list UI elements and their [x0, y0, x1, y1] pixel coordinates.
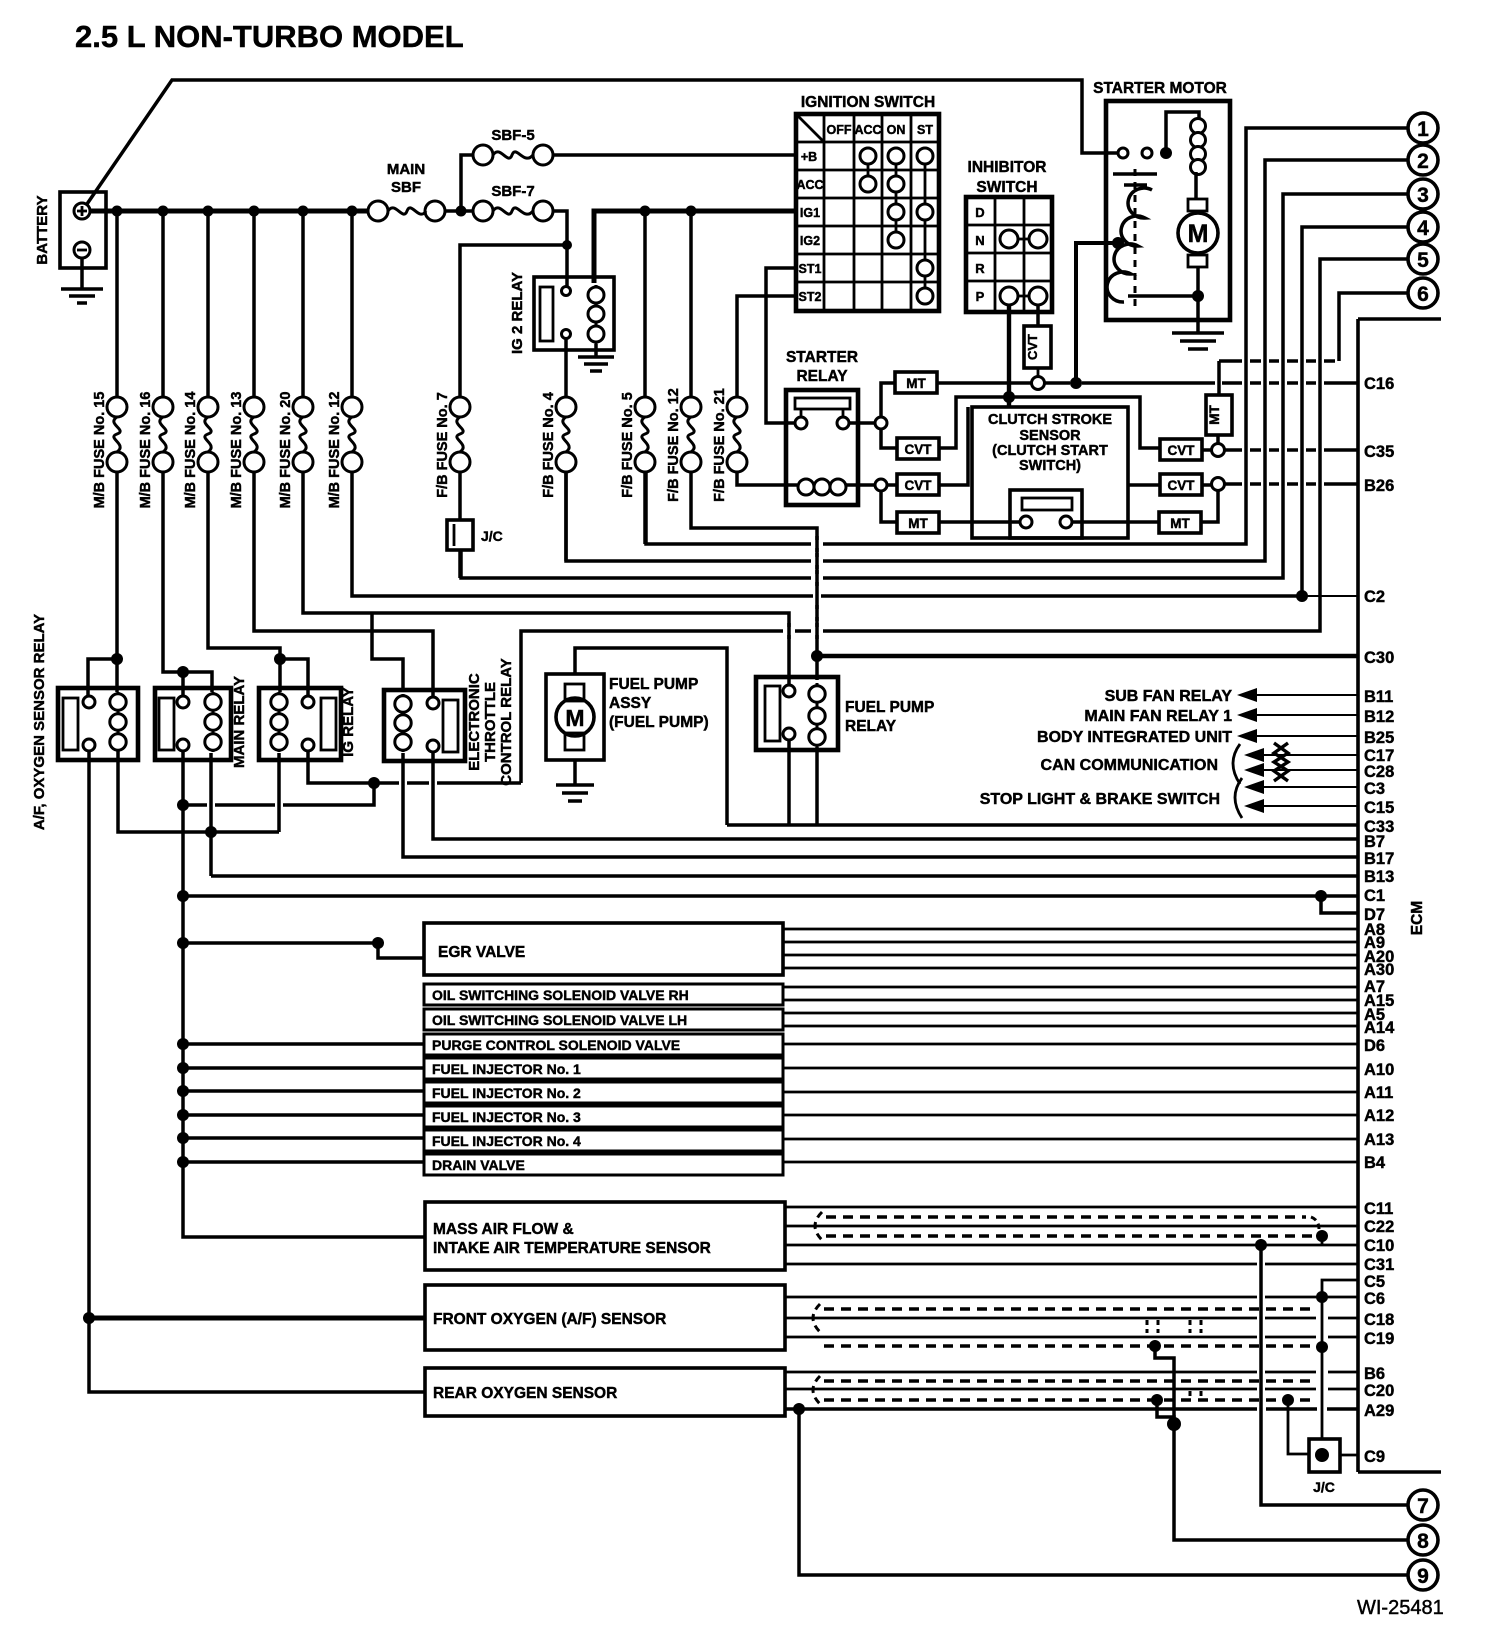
wire ST2 row to F/B fuse 21 — [737, 296, 796, 397]
svg-text:P: P — [976, 289, 985, 304]
svg-text:MAIN FAN RELAY 1: MAIN FAN RELAY 1 — [1084, 708, 1232, 725]
node 3 circled connector — [461, 179, 1438, 578]
wire coil return bus — [118, 751, 279, 876]
motor STARTER MOTOR — [1093, 80, 1230, 349]
wire CVT path over clutch sensor — [939, 397, 1160, 448]
wire C5 elbow — [1322, 1280, 1358, 1297]
wire main bus — [90, 209, 368, 214]
svg-text:INHIBITOR: INHIBITOR — [968, 159, 1047, 176]
svg-text:RELAY: RELAY — [845, 718, 897, 735]
svg-text:B11: B11 — [1364, 688, 1393, 706]
box MT (clutch switch left) — [897, 512, 939, 533]
wire C20 row — [785, 1388, 1358, 1391]
ground IG2 relay coil — [594, 344, 598, 356]
shield MAF dashed — [815, 1212, 822, 1240]
wire branch to F/B fuse No.7 — [460, 245, 567, 397]
wire M/B fuse20 to fuel pump relay contact — [303, 472, 789, 688]
svg-text:A29: A29 — [1364, 1402, 1394, 1420]
svg-text:2: 2 — [1417, 150, 1429, 173]
svg-text:STARTER: STARTER — [786, 349, 858, 366]
ECM pin labels — [1364, 375, 1395, 1466]
starter solenoid pull-in coil spring — [1107, 188, 1152, 302]
svg-text:CAN COMMUNICATION: CAN COMMUNICATION — [1041, 757, 1218, 774]
ground starter motor — [1172, 333, 1224, 349]
svg-text:B4: B4 — [1364, 1154, 1386, 1172]
svg-text:WI-25481: WI-25481 — [1357, 1597, 1444, 1619]
svg-text:C22: C22 — [1364, 1218, 1394, 1236]
fuse M/B FUSE No. 13 — [229, 392, 264, 509]
svg-text:ST1: ST1 — [799, 262, 822, 276]
wire EGR valve feed — [183, 943, 424, 958]
box CVT (starter relay coil, CVT path) — [897, 474, 939, 495]
svg-text:SBF-5: SBF-5 — [491, 127, 534, 144]
svg-text:M/B FUSE No. 14: M/B FUSE No. 14 — [183, 392, 199, 509]
svg-text:C11: C11 — [1364, 1200, 1393, 1218]
wire risers bus to M/B fuses — [117, 211, 352, 397]
wire M/B fuse14 to IG relay — [208, 472, 280, 692]
svg-text:M/B FUSE No. 16: M/B FUSE No. 16 — [138, 392, 154, 509]
svg-text:C30: C30 — [1364, 649, 1394, 667]
wire B13 row — [211, 874, 1358, 878]
svg-text:CLUTCH STROKE: CLUTCH STROKE — [988, 412, 1112, 428]
relay FUEL PUMP RELAY — [756, 677, 934, 750]
node junction after MAIN SBF — [456, 206, 467, 217]
svg-text:C18: C18 — [1364, 1311, 1394, 1329]
fuse SBF-7 — [473, 201, 493, 221]
wire IG relay contact output to node 5 — [308, 751, 521, 783]
svg-text:F/B FUSE No. 12: F/B FUSE No. 12 — [666, 388, 682, 502]
wire C22 row — [785, 1225, 1358, 1228]
wire EGR outputs A8 A9 A20 A30 — [783, 929, 1358, 968]
svg-text:ON: ON — [887, 123, 906, 137]
wire node 9 feed — [799, 1409, 1408, 1575]
ground below battery — [80, 258, 84, 288]
wire MAIN relay contact bus down — [183, 751, 425, 1237]
svg-text:6: 6 — [1417, 283, 1429, 306]
ECM left edge — [1356, 319, 1360, 1472]
wire A/F relay contact riser to oxygen sensors — [89, 751, 425, 1392]
svg-text:7: 7 — [1417, 1495, 1429, 1518]
wire B7 row from ETC contact — [433, 752, 1358, 839]
wire M/B fuse13 to ETC relay contact — [254, 472, 433, 699]
svg-text:4: 4 — [1417, 217, 1429, 240]
node 2 circled connector — [566, 145, 1438, 561]
svg-text:A11: A11 — [1364, 1084, 1393, 1102]
node 6 circled connector — [1339, 278, 1438, 361]
svg-text:F/B FUSE No. 4: F/B FUSE No. 4 — [541, 392, 557, 498]
svg-text:ASSY: ASSY — [609, 695, 652, 712]
wire C10 row — [785, 1244, 1358, 1247]
svg-text:M/B FUSE No. 12: M/B FUSE No. 12 — [327, 392, 343, 509]
svg-text:FUEL PUMP: FUEL PUMP — [609, 676, 698, 693]
svg-text:FUEL INJECTOR No. 2: FUEL INJECTOR No. 2 — [432, 1085, 581, 1101]
svg-text:MAIN: MAIN — [387, 161, 425, 178]
svg-text:D6: D6 — [1364, 1037, 1385, 1055]
svg-text:SBF-7: SBF-7 — [491, 183, 534, 200]
svg-text:FRONT OXYGEN (A/F) SENSOR: FRONT OXYGEN (A/F) SENSOR — [433, 1311, 666, 1328]
wire M/B fuse15 to A/F relay — [88, 472, 117, 699]
fuse F/B FUSE No. 4 — [541, 392, 576, 498]
valve OIL SWITCHING SOLENOID VALVE RH — [424, 984, 783, 1005]
ground fuel pump — [573, 760, 577, 784]
svg-text:R: R — [975, 261, 985, 276]
svg-text:B6: B6 — [1364, 1365, 1385, 1383]
wire fuse21 to starter relay coil — [737, 472, 797, 485]
svg-text:ELECTRONIC: ELECTRONIC — [466, 673, 483, 771]
svg-text:SWITCH: SWITCH — [976, 179, 1037, 196]
svg-text:C5: C5 — [1364, 1273, 1385, 1291]
wire A29 row — [785, 1407, 1358, 1411]
svg-text:C9: C9 — [1364, 1448, 1385, 1466]
wire C11 row — [785, 1206, 1358, 1209]
svg-text:CVT: CVT — [1025, 334, 1040, 360]
svg-text:OIL SWITCHING SOLENOID VALVE L: OIL SWITCHING SOLENOID VALVE LH — [432, 1012, 687, 1028]
svg-text:CVT: CVT — [1168, 443, 1196, 458]
svg-text:FUEL INJECTOR No. 1: FUEL INJECTOR No. 1 — [432, 1061, 581, 1077]
wire C35 row — [1202, 448, 1211, 452]
junction J/C (fuse 7) — [458, 472, 462, 520]
svg-text:ACC: ACC — [796, 178, 823, 192]
svg-text:BODY INTEGRATED UNIT: BODY INTEGRATED UNIT — [1037, 729, 1232, 746]
svg-text:B17: B17 — [1364, 850, 1394, 868]
sensor REAR OXYGEN box — [425, 1368, 785, 1416]
relay STARTER RELAY — [786, 349, 858, 505]
svg-text:CONTROL RELAY: CONTROL RELAY — [498, 658, 515, 786]
wire rear shield to J/C C9 — [1288, 1400, 1309, 1454]
svg-text:ECM: ECM — [1409, 901, 1426, 935]
valve EGR VALVE — [424, 923, 783, 975]
wire B17 row from ETC coil — [403, 753, 1358, 857]
svg-text:C15: C15 — [1364, 799, 1394, 817]
box CVT (clutch sensor right lower) — [1160, 474, 1202, 495]
wire fuel pump motor feed — [575, 648, 727, 825]
svg-text:FUEL INJECTOR No. 3: FUEL INJECTOR No. 3 — [432, 1109, 581, 1125]
wire SBF-5 to ignition switch +B — [553, 153, 796, 157]
wire MT row to ECM C16 — [937, 381, 1215, 385]
svg-text:(CLUTCH START: (CLUTCH START — [992, 443, 1108, 459]
svg-text:C16: C16 — [1364, 375, 1394, 393]
svg-text:C10: C10 — [1364, 1237, 1394, 1255]
wire J/C to node 3 riser — [458, 550, 462, 578]
svg-text:9: 9 — [1417, 1565, 1429, 1588]
svg-text:FUEL INJECTOR No. 4: FUEL INJECTOR No. 4 — [432, 1133, 581, 1149]
svg-text:F/B FUSE No. 5: F/B FUSE No. 5 — [620, 392, 636, 498]
svg-text:C35: C35 — [1364, 443, 1394, 461]
label SUB FAN RELAY with arrow B11 — [1105, 688, 1358, 705]
svg-text:M/B FUSE No. 15: M/B FUSE No. 15 — [92, 392, 108, 509]
svg-text:RELAY: RELAY — [796, 368, 848, 385]
wire crossing breaks — [783, 536, 823, 639]
svg-text:A13: A13 — [1364, 1131, 1394, 1149]
svg-text:B26: B26 — [1364, 477, 1394, 495]
wire C5 C6 net down to J/C — [1321, 1297, 1324, 1439]
relay A/F OXYGEN SENSOR RELAY — [31, 614, 138, 830]
wire C6 row — [785, 1296, 1358, 1299]
wire front oxygen shield to node 8 riser — [1155, 1346, 1408, 1540]
wire rear shield stair to node8 riser — [1157, 1400, 1174, 1424]
wire fuse4 riser — [564, 472, 568, 561]
wire B26 row — [1212, 478, 1225, 491]
svg-text:ACC: ACC — [854, 123, 881, 137]
svg-text:2.5 L NON-TURBO MODEL: 2.5 L NON-TURBO MODEL — [75, 19, 464, 54]
svg-text:IG1: IG1 — [800, 206, 820, 220]
svg-text:M: M — [1188, 220, 1209, 248]
svg-text:EGR VALVE: EGR VALVE — [438, 944, 525, 961]
svg-text:F/B FUSE No. 21: F/B FUSE No. 21 — [712, 388, 728, 502]
svg-text:D: D — [975, 205, 984, 220]
svg-text:PURGE CONTROL SOLENOID VALVE: PURGE CONTROL SOLENOID VALVE — [432, 1037, 680, 1053]
svg-text:M/B FUSE No. 20: M/B FUSE No. 20 — [278, 392, 294, 509]
svg-text:B7: B7 — [1364, 833, 1385, 851]
wire C18 row — [785, 1317, 1358, 1320]
wire clutch switch to right MT box — [1072, 520, 1159, 524]
node dots on main bus — [112, 206, 123, 217]
battery BAT — [60, 192, 106, 268]
injector FUEL INJECTOR No. 2 — [183, 1089, 424, 1093]
wire node 7 riser from C10 — [1261, 1245, 1408, 1505]
valve DRAIN VALVE — [183, 1160, 424, 1164]
shield rear oxygen dashed — [813, 1376, 820, 1404]
svg-text:MT: MT — [1170, 516, 1190, 531]
relay ELECTRONIC THROTTLE CONTROL RELAY — [384, 658, 515, 786]
node 9 circled connector — [1408, 1560, 1438, 1590]
wire C19 row — [785, 1336, 1358, 1339]
svg-text:THROTTLE: THROTTLE — [482, 682, 499, 762]
svg-text:A12: A12 — [1364, 1107, 1394, 1125]
wire SBF-7 to IG2 relay — [553, 211, 567, 287]
svg-text:ST: ST — [917, 123, 933, 137]
svg-text:C3: C3 — [1364, 780, 1385, 798]
svg-text:B13: B13 — [1364, 868, 1394, 886]
svg-text:SUB FAN RELAY: SUB FAN RELAY — [1105, 688, 1233, 705]
svg-text:STARTER MOTOR: STARTER MOTOR — [1093, 80, 1227, 97]
svg-text:M: M — [565, 705, 584, 731]
svg-text:BATTERY: BATTERY — [34, 195, 51, 264]
svg-text:IGNITION SWITCH: IGNITION SWITCH — [801, 94, 935, 111]
node 1 circled connector — [646, 113, 1438, 544]
injector FUEL INJECTOR No. 1 — [183, 1066, 424, 1070]
svg-text:IG 2 RELAY: IG 2 RELAY — [509, 272, 526, 354]
node 7 circled connector — [1408, 1490, 1438, 1520]
relay MAIN RELAY — [155, 676, 248, 768]
svg-text:B12: B12 — [1364, 708, 1394, 726]
wire fuel pump relay outputs to C33 — [789, 740, 817, 825]
relay IG2 — [534, 277, 614, 350]
svg-text:CVT: CVT — [905, 478, 933, 493]
fuse SBF-5 — [473, 145, 493, 165]
wire C2 row from M/B fuse12 — [352, 472, 1298, 596]
wire ST1 row to starter relay — [766, 268, 796, 423]
fuse M/B FUSE No. 20 — [278, 392, 313, 509]
svg-text:1: 1 — [1417, 118, 1429, 141]
svg-text:A14: A14 — [1364, 1019, 1395, 1037]
wire inhibitor P right to CVT resistor — [1036, 305, 1040, 326]
wire C9 row — [1340, 1454, 1358, 1457]
svg-text:IG2: IG2 — [800, 234, 820, 248]
svg-text:IG RELAY: IG RELAY — [340, 687, 357, 756]
wire IG1 row to coil of IG2 relay — [594, 211, 796, 283]
svg-text:F/B FUSE No. 7: F/B FUSE No. 7 — [435, 392, 451, 498]
svg-text:A10: A10 — [1364, 1061, 1394, 1079]
svg-text:MASS AIR FLOW &: MASS AIR FLOW & — [433, 1221, 574, 1238]
svg-text:REAR OXYGEN SENSOR: REAR OXYGEN SENSOR — [433, 1385, 617, 1402]
sensor FRONT OXYGEN box — [425, 1285, 785, 1350]
wire battery diagonal to top bus — [87, 80, 1118, 204]
svg-text:(FUEL PUMP): (FUEL PUMP) — [609, 714, 709, 731]
svg-text:MT: MT — [1207, 405, 1222, 425]
fuse MAIN SBF — [368, 201, 388, 221]
svg-text:C1: C1 — [1364, 887, 1385, 905]
svg-text:C28: C28 — [1364, 763, 1394, 781]
svg-text:ST2: ST2 — [799, 290, 822, 304]
fuse M/B FUSE No. 16 — [138, 392, 173, 509]
wire dashed MT row to node 6 — [1219, 359, 1335, 363]
svg-text:MT: MT — [908, 516, 928, 531]
svg-text:MAIN RELAY: MAIN RELAY — [231, 676, 248, 768]
svg-text:STOP LIGHT & BRAKE SWITCH: STOP LIGHT & BRAKE SWITCH — [980, 791, 1220, 808]
svg-text:OIL SWITCHING SOLENOID VALVE R: OIL SWITCHING SOLENOID VALVE RH — [432, 987, 689, 1003]
svg-text:C2: C2 — [1364, 588, 1385, 606]
svg-text:N: N — [975, 233, 984, 248]
wire C1 row and D7 branch — [183, 894, 1358, 898]
valve PURGE CONTROL SOLENOID VALVE — [183, 1042, 424, 1046]
svg-text:SENSOR: SENSOR — [1019, 428, 1081, 444]
wire C31 row — [785, 1263, 1358, 1266]
svg-text:FUEL PUMP: FUEL PUMP — [845, 699, 934, 716]
box CVT (clutch sensor right upper) — [1160, 439, 1202, 460]
valve OIL SWITCHING SOLENOID VALVE LH — [424, 1009, 783, 1030]
svg-text:SWITCH): SWITCH) — [1019, 458, 1081, 474]
wire inhibitor P left contact down — [1007, 305, 1011, 407]
wire F/B fuse12 to fuel pump relay coil — [691, 472, 817, 680]
svg-text:DRAIN VALVE: DRAIN VALVE — [432, 1157, 525, 1173]
svg-text:INTAKE AIR TEMPERATURE SENSOR: INTAKE AIR TEMPERATURE SENSOR — [433, 1240, 711, 1257]
label MAIN FAN RELAY 1 with arrow B12 — [1084, 708, 1358, 725]
label CAN COMMUNICATION with arrows C17 C28 — [1041, 743, 1358, 784]
box MT (clutch switch right) — [1159, 512, 1201, 533]
fuse M/B FUSE No. 14 — [183, 392, 218, 509]
sensor MASS AIR FLOW box — [425, 1202, 785, 1270]
wire M/B fuse16 to MAIN relay — [163, 472, 212, 692]
injector FUEL INJECTOR No. 4 — [183, 1136, 424, 1140]
svg-text:C20: C20 — [1364, 1382, 1394, 1400]
injector FUEL INJECTOR No. 3 — [183, 1113, 424, 1117]
svg-text:M/B FUSE No. 13: M/B FUSE No. 13 — [229, 392, 245, 509]
starter solenoid plunger — [1113, 174, 1157, 185]
wire risers to F/B fuse 5 and 12 — [645, 211, 691, 397]
svg-text:B25: B25 — [1364, 729, 1394, 747]
node 8 circled connector — [1408, 1525, 1438, 1555]
label BODY INTEGRATED UNIT with arrow B25 — [1037, 729, 1358, 746]
svg-text:A/F, OXYGEN SENSOR RELAY: A/F, OXYGEN SENSOR RELAY — [31, 614, 48, 830]
wire B6 row — [785, 1371, 1358, 1374]
wire IG2 relay to F/B fuse No.4 — [564, 338, 568, 397]
svg-text:8: 8 — [1417, 1530, 1429, 1553]
svg-text:C6: C6 — [1364, 1290, 1385, 1308]
pump FUEL PUMP ASSY — [546, 674, 709, 760]
box MT vertical (to dashed row) — [1206, 395, 1232, 435]
fuse F/B FUSE No. 12 — [666, 388, 701, 502]
fuse F/B FUSE No. 5 — [620, 392, 655, 498]
svg-text:CVT: CVT — [905, 442, 933, 457]
wire branch to ETC relay coil — [372, 613, 403, 692]
svg-text:3: 3 — [1417, 184, 1429, 207]
box CVT (starter relay contact, CVT path) — [897, 438, 939, 459]
svg-text:+B: +B — [801, 150, 817, 164]
fuse M/B FUSE No. 12 — [327, 392, 362, 509]
shield front oxygen dashed — [813, 1304, 820, 1332]
fuse F/B FUSE No. 21 — [712, 388, 747, 502]
svg-text:C19: C19 — [1364, 1330, 1394, 1348]
relay IG RELAY — [259, 687, 357, 760]
sensor CLUTCH STROKE SENSOR outline — [972, 407, 1128, 538]
wire fuse5 riser — [643, 472, 647, 544]
svg-text:A30: A30 — [1364, 961, 1394, 979]
switch INHIBITOR SWITCH table — [966, 159, 1052, 312]
box CVT (inhibitor leg) — [1024, 326, 1051, 368]
wire C33 row — [727, 823, 1358, 827]
svg-text:J/C: J/C — [1313, 1479, 1335, 1495]
wire MAIN relay contact branch — [183, 783, 374, 805]
wire starter relay contact to MT/CVT — [849, 421, 875, 425]
fuse M/B FUSE No. 15 — [92, 392, 127, 509]
svg-text:MT: MT — [906, 376, 926, 391]
node 4 circled connector — [1302, 212, 1438, 596]
label STOP LIGHT & BRAKE SWITCH with arrows C3 C15 — [980, 778, 1358, 818]
box MT (starter relay contact, MT path) — [895, 372, 937, 393]
svg-text:5: 5 — [1417, 249, 1429, 272]
svg-text:OFF: OFF — [827, 123, 852, 137]
svg-text:J/C: J/C — [481, 528, 503, 544]
node 5 circled connector — [521, 244, 1438, 783]
switch IGNITION SWITCH table — [796, 94, 939, 311]
svg-text:SBF: SBF — [391, 179, 421, 196]
svg-text:CVT: CVT — [1168, 478, 1196, 493]
svg-text:C31: C31 — [1364, 1256, 1394, 1274]
junction J/C (C9) — [1309, 1439, 1340, 1472]
wire starter relay output up to solenoid — [1076, 243, 1114, 383]
fuse F/B FUSE No. 7 — [435, 392, 470, 498]
wire C30 row — [817, 654, 1358, 658]
